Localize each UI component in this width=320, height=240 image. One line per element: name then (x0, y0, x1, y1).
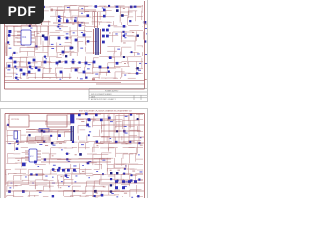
wire (43, 173, 51, 175)
wire (108, 185, 110, 195)
capacitor C78 (134, 180, 137, 183)
fuse F1 (51, 9, 53, 12)
resistor R3 (20, 11, 22, 13)
wire (43, 56, 58, 58)
capacitor C59 (138, 179, 140, 181)
wire bus OSD B (26, 139, 51, 141)
wire (20, 56, 26, 58)
wire (64, 196, 73, 198)
wire (106, 168, 108, 175)
wire (114, 194, 119, 196)
label (88, 160, 91, 163)
wire block link (29, 120, 47, 122)
wire (86, 40, 97, 42)
wire (65, 173, 81, 175)
wire (71, 180, 73, 185)
wire (114, 141, 126, 143)
transistor Q2 (87, 14, 90, 17)
wire (93, 76, 100, 78)
wire (5, 5, 7, 13)
wire (64, 36, 72, 38)
wire (109, 191, 124, 193)
wire (56, 10, 64, 12)
capacitor C62 (137, 195, 139, 197)
label (140, 136, 142, 139)
wire (119, 52, 121, 56)
wire (56, 77, 58, 79)
wire (57, 52, 69, 54)
wire (29, 184, 37, 186)
label (67, 6, 70, 9)
label (145, 27, 147, 30)
wire (129, 139, 141, 141)
wire (13, 10, 15, 17)
capacitor C11 (103, 9, 106, 12)
svg-text:SIZE DOCUMENT NUMBER: SIZE DOCUMENT NUMBER (91, 94, 112, 96)
wire (56, 26, 68, 28)
capacitor C30 (14, 61, 17, 64)
label (45, 57, 47, 60)
capacitor C18 (102, 41, 105, 44)
wire right rail B (101, 130, 141, 132)
capacitor C4 (123, 31, 125, 33)
wire (136, 61, 138, 71)
wire (142, 15, 144, 17)
wire (70, 30, 77, 32)
wire (84, 169, 86, 176)
capacitor C49 (50, 135, 52, 137)
transistor Q16 (43, 130, 45, 132)
label (59, 78, 61, 81)
wire (78, 36, 92, 38)
resistor R15 (58, 134, 61, 137)
wire (78, 7, 80, 17)
crystal X1 (14, 131, 18, 139)
wire (141, 53, 143, 56)
wire (63, 22, 71, 24)
wire (48, 136, 50, 141)
label (139, 62, 141, 65)
capacitor C8 (35, 67, 38, 70)
svg-text:EXIT GOLDSTAR CF-21D30K CHASSI: EXIT GOLDSTAR CF-21D30K CHASSIS MC-994A … (79, 110, 132, 113)
diode D11 (44, 56, 46, 58)
diode D4 (79, 24, 82, 27)
wire (14, 196, 24, 198)
label (30, 67, 33, 70)
wire (41, 74, 43, 79)
wire (135, 153, 137, 162)
wire (128, 25, 139, 27)
wire (113, 31, 127, 33)
wire (42, 73, 54, 75)
wire (22, 179, 30, 181)
wire (27, 11, 41, 13)
wire (92, 195, 94, 198)
wire (122, 72, 131, 74)
capacitor C16 (102, 35, 105, 38)
wire (21, 66, 28, 68)
wire (129, 147, 137, 149)
diode D26 (123, 173, 125, 175)
wire (41, 21, 43, 25)
wire (17, 37, 21, 39)
wire (19, 17, 21, 22)
wire (6, 130, 8, 137)
wire (51, 141, 67, 143)
wire (5, 170, 7, 176)
wire (128, 125, 134, 127)
label (23, 8, 25, 11)
wire (50, 148, 52, 159)
wire (55, 30, 62, 32)
transistor Q21 (101, 194, 104, 197)
wire (35, 36, 37, 46)
wire (15, 157, 31, 159)
wire (7, 158, 9, 164)
wire (43, 45, 54, 47)
wire left column C (36, 26, 38, 50)
label (38, 165, 40, 168)
wire (86, 195, 101, 197)
wire (20, 51, 36, 53)
wire (136, 118, 143, 120)
wire (71, 35, 78, 37)
diode D19 (96, 141, 99, 144)
wire (21, 24, 37, 26)
wire (107, 50, 117, 52)
wire (116, 152, 128, 154)
label (80, 77, 83, 80)
wire (123, 179, 130, 181)
wire (122, 46, 132, 48)
label (59, 142, 62, 145)
wire (77, 126, 79, 134)
wire (20, 25, 22, 31)
wire (5, 43, 7, 53)
wire (122, 61, 128, 63)
wire (77, 42, 79, 53)
wire (7, 72, 17, 74)
capacitor C37 (38, 69, 41, 72)
wire (72, 185, 81, 187)
wire (108, 119, 123, 121)
wire (137, 141, 139, 143)
diode D17 (87, 118, 90, 121)
wire (5, 52, 7, 56)
label (82, 192, 85, 195)
wire (34, 67, 45, 69)
wire (6, 162, 17, 164)
wire bus OSD C (26, 141, 51, 143)
label (60, 53, 62, 56)
label (58, 23, 61, 26)
transformer T2 core (71, 126, 73, 141)
wire (14, 190, 28, 192)
wire (99, 56, 115, 58)
label (95, 73, 98, 76)
wire (31, 31, 35, 33)
wire (102, 135, 111, 137)
wire (71, 194, 81, 196)
diode D13 (107, 67, 109, 69)
wire (141, 58, 143, 69)
wire (34, 43, 36, 51)
wire (12, 72, 14, 79)
wire (49, 185, 51, 192)
label (9, 186, 11, 189)
wire (25, 153, 29, 155)
wire (71, 141, 78, 143)
wire (86, 181, 88, 187)
label (80, 47, 83, 50)
wire (64, 5, 76, 7)
wire (70, 52, 72, 56)
wire bottom bus A (6, 182, 144, 184)
transformer T1 secondary winding (100, 29, 102, 54)
label (132, 170, 135, 173)
wire (79, 195, 81, 198)
wire top rail (104, 6, 141, 8)
wire (56, 56, 62, 58)
frame top border page2 (5, 113, 145, 115)
wire (58, 190, 73, 192)
wire (69, 31, 71, 39)
wire (92, 58, 94, 68)
wire (21, 20, 35, 22)
capacitor C69 (22, 163, 26, 167)
wire (115, 148, 117, 157)
wire (120, 11, 132, 13)
capacitor C64 (85, 113, 88, 116)
wire (113, 174, 115, 175)
wire (43, 67, 52, 69)
capacitor C24 (66, 37, 69, 40)
wire (84, 63, 86, 68)
wire (122, 195, 124, 198)
title block left line (88, 89, 90, 101)
label (61, 148, 63, 151)
wire (85, 31, 92, 33)
capacitor C27 (70, 47, 73, 50)
wire primary feed A (94, 12, 96, 28)
wire (119, 7, 121, 16)
wire (122, 154, 124, 159)
wire (119, 12, 121, 21)
wire (35, 173, 44, 175)
frame right border page2 (144, 114, 146, 200)
frame bottom border page1 (5, 88, 145, 90)
frame right border page1 (144, 1, 146, 89)
wire (36, 21, 51, 23)
wire (129, 163, 143, 165)
wire (27, 67, 29, 76)
wire (134, 52, 136, 56)
wire (6, 62, 8, 69)
wire (27, 78, 29, 80)
label (102, 159, 105, 162)
wire (56, 46, 58, 51)
wire (28, 174, 43, 176)
wire (27, 22, 38, 24)
wire (65, 131, 74, 133)
wire vertical grid (113, 114, 115, 143)
wire (85, 5, 93, 7)
wire bus pair B (45, 123, 71, 125)
wire (49, 77, 51, 79)
capacitor C10 (15, 77, 17, 79)
title block row line 2 (89, 94, 149, 96)
wire (121, 36, 123, 43)
wire (129, 135, 137, 137)
capacitor C14 (102, 29, 105, 32)
wire (71, 186, 73, 191)
wire (57, 185, 71, 187)
wire (135, 72, 141, 74)
label (117, 48, 120, 51)
wire (116, 120, 122, 122)
wire (34, 30, 47, 32)
wire (129, 153, 131, 163)
wire (135, 5, 143, 7)
label (45, 144, 48, 147)
wire (25, 156, 29, 158)
wire (142, 31, 145, 33)
wire (63, 191, 65, 197)
label (102, 7, 104, 10)
label (75, 170, 77, 173)
wire (8, 153, 14, 155)
wire (137, 169, 143, 171)
wire (28, 169, 43, 171)
wire (135, 67, 143, 69)
transistor Q5 (29, 25, 31, 27)
wire (120, 175, 122, 183)
wire (106, 72, 108, 76)
capacitor C57 (79, 153, 82, 156)
capacitor C41 (85, 62, 88, 65)
wire (6, 186, 8, 190)
wire (20, 6, 34, 8)
wire (99, 158, 101, 169)
wire (17, 41, 21, 43)
capacitor C40 (72, 61, 75, 64)
wire (6, 16, 17, 18)
wire (13, 196, 15, 199)
wire (58, 129, 70, 131)
label (15, 18, 17, 21)
wire (69, 73, 71, 79)
label (126, 142, 128, 145)
wire (108, 174, 123, 176)
wire (36, 189, 42, 191)
wire (57, 45, 72, 47)
wire (92, 154, 94, 165)
wire (128, 140, 130, 143)
diode D6 (8, 34, 10, 36)
wire (6, 135, 8, 143)
wire (109, 178, 124, 180)
diode D29 (110, 178, 112, 180)
wire (86, 118, 96, 120)
capacitor C13 (44, 36, 48, 40)
label (45, 175, 47, 178)
wire (51, 130, 59, 132)
wire (7, 142, 16, 144)
wire (123, 153, 133, 155)
capacitor C65 (95, 114, 98, 117)
wire (93, 67, 109, 69)
wire (7, 173, 9, 175)
wire (100, 67, 116, 69)
transistor Q8 (144, 40, 146, 42)
label (73, 165, 76, 168)
label (110, 137, 112, 140)
wire (121, 136, 123, 140)
label (125, 165, 127, 168)
wire video bus B (26, 131, 71, 133)
wire video bus A (26, 129, 71, 131)
label (87, 67, 90, 70)
wire (77, 46, 79, 51)
wire (78, 30, 85, 32)
wire (64, 178, 74, 180)
wire (5, 20, 17, 22)
label (51, 43, 54, 46)
wire rail under badge (5, 25, 49, 27)
capacitor C61 (52, 195, 54, 197)
wire (92, 62, 94, 69)
wire (35, 164, 46, 166)
wire (79, 140, 86, 142)
wire (20, 130, 22, 141)
label (68, 185, 70, 188)
capacitor C74 (73, 169, 76, 172)
diode D25 (30, 173, 32, 175)
transistor Q12 (29, 66, 32, 69)
wire (77, 25, 79, 36)
capacitor C50 (88, 134, 90, 136)
wire (17, 31, 21, 33)
wire (100, 141, 102, 143)
resistor R2 (130, 6, 133, 9)
wire (106, 35, 118, 37)
label-box LB1 (39, 129, 49, 133)
wire (41, 11, 43, 22)
wire (57, 76, 72, 78)
wire (126, 17, 128, 25)
wire (57, 6, 69, 8)
op-amp U1 (21, 30, 31, 45)
wire (65, 153, 70, 155)
wire second row rail (76, 118, 109, 120)
wire (122, 31, 134, 33)
capacitor C46 (60, 71, 63, 74)
label (32, 182, 34, 185)
wire (77, 21, 79, 25)
wire (29, 129, 36, 131)
capacitor C36 (8, 65, 11, 68)
capacitor C15 (106, 29, 109, 32)
wire (56, 53, 58, 56)
wire (92, 11, 94, 19)
capacitor C33 (20, 69, 23, 72)
wire (114, 57, 116, 63)
wire (99, 12, 101, 20)
block deflection BX3 (114, 164, 126, 168)
wire (93, 116, 95, 122)
wire (128, 164, 130, 174)
wire (8, 119, 17, 121)
